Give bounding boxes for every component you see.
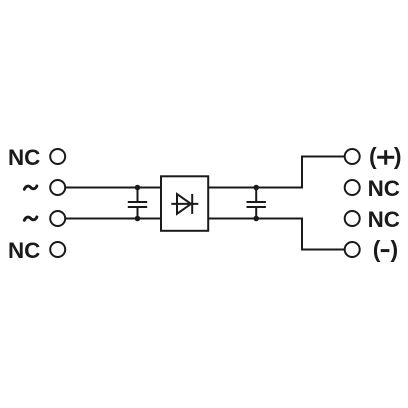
svg-text:NC: NC (368, 176, 400, 201)
svg-text:NC: NC (368, 207, 400, 232)
svg-text:NC: NC (8, 145, 40, 170)
svg-text:): ) (391, 236, 399, 262)
svg-text:NC: NC (8, 238, 40, 263)
svg-text:): ) (394, 143, 402, 169)
svg-text:(: ( (369, 143, 377, 169)
svg-text:(: ( (373, 236, 381, 262)
